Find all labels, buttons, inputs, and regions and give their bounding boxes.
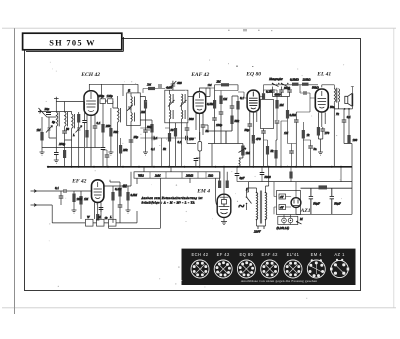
socket EL41 xyxy=(284,260,302,278)
svg-text:Anschlüsse von unten gegen die: Anschlüsse von unten gegen die Fassung g… xyxy=(241,279,318,283)
svg-text:300: 300 xyxy=(189,117,194,121)
wire: lower link xyxy=(109,178,161,228)
svg-text:1M: 1M xyxy=(123,184,128,188)
wire: T2 bottoms to bus xyxy=(170,123,182,167)
svg-text:5k: 5k xyxy=(163,147,167,151)
svg-text:1M: 1M xyxy=(223,97,228,101)
svg-text:250p: 250p xyxy=(98,94,105,98)
resistor R2 xyxy=(77,114,80,123)
resistor grid R24 xyxy=(72,194,75,203)
svg-text:1M: 1M xyxy=(208,83,213,87)
svg-text:500p: 500p xyxy=(284,86,291,90)
svg-text:110kΩ: 110kΩ xyxy=(303,78,312,82)
svg-text:8μF: 8μF xyxy=(240,176,245,180)
capacitor C8 xyxy=(143,130,148,132)
wire: chassis bus xyxy=(48,166,352,168)
wire: T1 to mid cluster xyxy=(140,97,152,121)
input jack TA arrow 2 xyxy=(31,204,37,207)
svg-text:0,1: 0,1 xyxy=(97,121,101,126)
capacitor C10 xyxy=(201,125,206,127)
svg-text:4x80: 4x80 xyxy=(166,86,172,90)
svg-text:0,5M: 0,5M xyxy=(290,113,297,118)
wire: speaker bottom row xyxy=(334,102,352,109)
wire: T2 out to EAF42 grid xyxy=(188,96,193,98)
coupling cap C28 xyxy=(124,184,126,188)
capacitor C25 xyxy=(59,196,64,198)
capacitor C19 xyxy=(287,90,292,92)
resistor R35 xyxy=(119,145,122,154)
capacitor EAF42 k xyxy=(194,159,199,161)
contact rect row 1 xyxy=(86,219,94,226)
wire: detector line xyxy=(146,129,151,131)
ground xyxy=(126,210,131,213)
wire: front-end top xyxy=(42,99,84,133)
resistor R5 xyxy=(144,100,147,109)
wire: T2 verticals xyxy=(170,90,182,123)
cathode cap C21 xyxy=(321,129,326,131)
svg-text:1M: 1M xyxy=(37,128,42,132)
trimmer C2 xyxy=(46,126,53,133)
electrolytic C29 xyxy=(309,188,313,214)
svg-text:5000: 5000 xyxy=(265,175,272,179)
svg-text:M: M xyxy=(299,217,303,221)
terminal A xyxy=(351,87,354,94)
svg-text:ECH 42: ECH 42 xyxy=(80,72,100,78)
wire: EF42 plate right xyxy=(104,186,113,192)
svg-text:0,1: 0,1 xyxy=(151,147,155,152)
input jack TA arrow 1 xyxy=(31,190,37,193)
cathode R26 xyxy=(96,214,99,221)
svg-text:2M: 2M xyxy=(147,83,152,87)
transformer primary winding xyxy=(257,193,258,220)
cathode network EQ80 xyxy=(252,135,255,144)
ground xyxy=(54,160,59,163)
transformer terminal dots xyxy=(256,192,258,194)
wire: HT rails xyxy=(249,182,352,189)
capacitor C36 xyxy=(235,174,240,176)
resistor R1 xyxy=(40,132,43,141)
resistor R33 xyxy=(286,110,289,119)
tube pins EQ80 xyxy=(250,116,257,135)
svg-text:EQ 80: EQ 80 xyxy=(245,71,261,77)
capacitor input C24 xyxy=(64,189,66,193)
switch S1b xyxy=(282,84,288,87)
cathode resistor xyxy=(85,130,88,138)
svg-text:50: 50 xyxy=(171,128,175,132)
ground xyxy=(318,152,323,155)
wire: down to pot xyxy=(208,131,240,144)
resistor R29 xyxy=(126,192,129,201)
tube pins EAF42 xyxy=(196,118,203,140)
coil L3 xyxy=(72,114,75,128)
capacitor C15 xyxy=(261,131,266,133)
wire xyxy=(38,111,72,113)
svg-text:100p: 100p xyxy=(216,123,223,127)
wire: AF line xyxy=(140,138,196,167)
svg-text:WA2: WA2 xyxy=(138,174,144,178)
IF can T2 xyxy=(165,90,188,123)
output transformer T3 xyxy=(334,89,335,103)
svg-text:10M: 10M xyxy=(77,197,83,201)
capacitor C18 xyxy=(279,90,284,92)
wire: box links xyxy=(274,182,291,215)
capacitor C38 xyxy=(105,155,110,157)
resistor R31 xyxy=(174,128,177,137)
svg-text:2M: 2M xyxy=(280,103,285,107)
wire: T1 bottom to bus xyxy=(130,126,132,167)
coil under pot xyxy=(239,158,243,166)
svg-text:4V: 4V xyxy=(280,206,285,210)
svg-text:1k: 1k xyxy=(307,133,311,137)
resistor R34 xyxy=(289,172,292,179)
socket EAF42 xyxy=(261,260,279,278)
loudspeaker LS xyxy=(345,93,353,106)
wire: transformer leads xyxy=(247,167,269,226)
svg-text:1kΩ: 1kΩ xyxy=(208,174,214,178)
wire: link row xyxy=(140,127,169,129)
node dots on bus xyxy=(47,166,342,168)
wire: plate to transformer xyxy=(333,85,335,89)
switch S1a xyxy=(273,84,279,87)
resistor R13 right of EQ80 xyxy=(262,93,265,99)
svg-text:EF 42: EF 42 xyxy=(71,178,87,184)
resistor R17 xyxy=(292,83,299,86)
capacitor C16 xyxy=(275,121,280,123)
resistor R32 xyxy=(148,87,155,90)
socket AZ1 xyxy=(330,259,349,278)
svg-text:EM 4: EM 4 xyxy=(196,188,210,194)
svg-text:5k: 5k xyxy=(271,149,275,153)
terminal top of L1 xyxy=(54,97,59,99)
svg-text:50n: 50n xyxy=(330,105,335,109)
capacitor C23 xyxy=(294,120,299,122)
capacitor C27 xyxy=(118,205,123,207)
resistor R8 on AVC xyxy=(221,83,229,86)
svg-text:50k: 50k xyxy=(114,130,119,134)
wire xyxy=(208,124,232,131)
resistor R6 xyxy=(150,124,153,133)
capacitor C13 xyxy=(230,106,235,108)
svg-text:7k: 7k xyxy=(336,112,340,116)
svg-text:8p: 8p xyxy=(52,120,56,124)
tube pins EL41 xyxy=(318,117,325,127)
svg-text:0,1: 0,1 xyxy=(55,186,59,191)
svg-text:2xM: 2xM xyxy=(155,174,161,178)
screen resistor R28 xyxy=(118,188,121,197)
resistor R18 xyxy=(302,83,309,86)
svg-text:25k: 25k xyxy=(106,124,111,128)
capacitor C22 xyxy=(342,120,347,122)
wire verticals to bus xyxy=(205,118,238,167)
svg-text:M: M xyxy=(97,215,101,219)
IF can T1 xyxy=(127,93,141,126)
heater winding a xyxy=(279,194,286,199)
wire: AVC long line xyxy=(143,88,215,96)
capacitor C12 xyxy=(219,112,224,114)
fuse Si1 xyxy=(282,218,287,223)
svg-text:f1: f1 xyxy=(128,89,131,93)
wire: AVC line top xyxy=(215,85,239,97)
mains switch xyxy=(247,197,252,204)
chassis arrow below AZ1 xyxy=(297,221,302,224)
svg-text:25k: 25k xyxy=(123,148,128,152)
resistor R16 xyxy=(274,150,277,159)
ground xyxy=(40,152,45,155)
transformer secondary winding xyxy=(266,193,267,220)
socket EM4 xyxy=(307,259,325,278)
coil L1 antenna xyxy=(56,112,59,126)
svg-text:468: 468 xyxy=(177,81,182,85)
svg-text:1M: 1M xyxy=(84,197,89,201)
smoothing choke xyxy=(319,185,328,189)
wire: feedback column xyxy=(334,109,349,167)
svg-text:125p: 125p xyxy=(107,94,114,98)
svg-text:2M: 2M xyxy=(217,80,222,84)
resistor R11 xyxy=(230,116,233,125)
capacitor antenna series xyxy=(46,113,51,115)
svg-text:50k: 50k xyxy=(235,119,240,123)
svg-text:1M: 1M xyxy=(284,131,289,135)
coil T2d xyxy=(182,110,186,119)
heater winding b xyxy=(279,205,286,210)
fuse enclosure xyxy=(278,216,298,224)
tube EF42 pins down xyxy=(94,207,101,219)
svg-text:EQ 80: EQ 80 xyxy=(239,252,253,257)
svg-text:50μF: 50μF xyxy=(334,202,341,206)
plate resistor R27 xyxy=(111,192,114,201)
contact rect row 2 xyxy=(97,219,105,226)
tube pins to bus xyxy=(87,120,95,167)
border frame of schematic xyxy=(25,39,361,291)
capacitor C14 xyxy=(248,124,253,126)
capacitor C6 xyxy=(101,148,106,150)
svg-text:1k: 1k xyxy=(105,216,109,220)
resistor R30 xyxy=(168,133,171,142)
svg-text:Klangregler: Klangregler xyxy=(268,78,283,81)
wire: bottom row xyxy=(52,222,85,224)
resistor R4 xyxy=(109,128,112,137)
wire: EL41 plate to output transformer xyxy=(322,85,335,88)
resistor R39 xyxy=(63,150,66,158)
coil T1b xyxy=(131,113,135,122)
svg-text:ECH 42: ECH 42 xyxy=(191,252,208,257)
svg-text:Ausbau zum Netzschalteränderun: Ausbau zum Netzschalteränderung ist xyxy=(141,196,203,200)
coil L2 xyxy=(65,112,68,126)
svg-text:EAF 42: EAF 42 xyxy=(262,252,279,257)
top mid faint specks xyxy=(236,66,253,67)
resistor R10 xyxy=(219,96,222,105)
svg-text:20M2: 20M2 xyxy=(186,174,194,178)
trimmer C4 xyxy=(76,126,83,133)
resistor R3 xyxy=(101,124,104,133)
svg-text:220V: 220V xyxy=(254,230,262,234)
wire xyxy=(181,145,183,167)
capacitor C3 xyxy=(62,131,67,133)
svg-text:50: 50 xyxy=(66,127,70,131)
scan noise xyxy=(42,60,344,299)
capacitor C33 xyxy=(185,128,190,130)
svg-text:2M: 2M xyxy=(141,110,146,114)
wire: B+ to EQ80 xyxy=(264,85,293,90)
resistor R12 xyxy=(236,101,239,110)
svg-text:50μF: 50μF xyxy=(313,202,320,206)
capacitor C39 inline xyxy=(152,136,154,141)
capacitor C42 xyxy=(54,153,59,155)
wire: grid feed xyxy=(83,101,86,103)
osc coil L4 xyxy=(118,108,121,122)
wire: ECH42 top to osc xyxy=(89,84,138,96)
svg-text:EAF 42: EAF 42 xyxy=(190,72,209,78)
socket EF42 xyxy=(214,260,232,278)
resistor R25 xyxy=(79,196,82,205)
wire xyxy=(281,121,288,167)
svg-text:0,5M: 0,5M xyxy=(207,102,214,107)
cathode resistor EAF42 xyxy=(198,142,202,152)
wire xyxy=(42,141,84,153)
svg-text:EL 41: EL 41 xyxy=(316,71,331,77)
wire: grid coupling xyxy=(300,85,315,98)
socket ECH42 xyxy=(191,260,209,278)
ground xyxy=(72,210,77,213)
wire xyxy=(93,211,137,223)
resistor R38 xyxy=(266,146,269,155)
svg-text:470: 470 xyxy=(256,137,261,141)
svg-text:L: L xyxy=(72,133,75,137)
electrolytic C30 xyxy=(330,188,334,214)
trimmer arrows T2 xyxy=(168,100,187,107)
resistor above EM4 xyxy=(218,181,221,189)
wire: AZ1 anode feed xyxy=(296,167,341,198)
svg-text:5n: 5n xyxy=(314,147,318,151)
svg-text:0,5M: 0,5M xyxy=(131,193,138,198)
svg-text:EL 41: EL 41 xyxy=(287,252,300,257)
antenna input A xyxy=(38,108,44,114)
svg-text:4V: 4V xyxy=(280,195,285,199)
ground xyxy=(108,152,113,155)
trimmer in T1 xyxy=(127,105,133,111)
volume pot P1 xyxy=(241,146,244,156)
svg-text:AZ1: AZ1 xyxy=(300,208,311,214)
wire: antenna to coil xyxy=(44,114,56,117)
ground at EM4 xyxy=(221,222,227,225)
svg-text:Schaltfolge : A - M - M² - L -: Schaltfolge : A - M - M² - L - TA xyxy=(142,201,195,205)
svg-text:0,1: 0,1 xyxy=(240,96,244,101)
coil T1a xyxy=(131,97,135,106)
svg-text:W: W xyxy=(87,215,90,219)
capacitor C11 xyxy=(212,118,217,120)
filter box xyxy=(261,100,274,129)
coil T2c xyxy=(182,94,186,103)
svg-text:20μ: 20μ xyxy=(45,107,50,111)
svg-text:50kΩ: 50kΩ xyxy=(312,86,319,90)
switch strip body xyxy=(134,172,220,178)
cathode resistor R20 xyxy=(317,127,320,136)
wire: EM4 connections xyxy=(216,167,225,222)
resistor R22 xyxy=(347,135,350,144)
rectifier box xyxy=(277,191,301,215)
wire xyxy=(288,97,297,144)
svg-text:(0,2/0,1A): (0,2/0,1A) xyxy=(277,226,290,231)
svg-text:1M: 1M xyxy=(246,151,251,155)
svg-text:150: 150 xyxy=(189,137,194,141)
diode load resistor R9 xyxy=(213,100,216,109)
trimmer above T2 xyxy=(170,81,177,90)
resistor R23 xyxy=(302,130,305,139)
wire: B+ row to EL41 xyxy=(292,84,318,86)
capacitor C35 xyxy=(308,146,313,148)
transformer core xyxy=(260,191,261,224)
coil T2a xyxy=(170,94,174,103)
svg-text:50k: 50k xyxy=(147,125,152,129)
wire: input wiring xyxy=(37,191,65,223)
svg-text:170: 170 xyxy=(325,131,330,135)
ground xyxy=(143,152,148,155)
wire: strip drops xyxy=(137,167,190,184)
resistor above EM4 right xyxy=(226,181,229,189)
capacitor C5 xyxy=(82,121,87,123)
svg-text:0,3MΩ: 0,3MΩ xyxy=(290,78,299,83)
svg-text:SH 705 W: SH 705 W xyxy=(49,38,96,47)
padder capacitor 2 xyxy=(108,99,113,104)
svg-text:L: L xyxy=(109,215,112,219)
capacitor C17 xyxy=(270,90,275,92)
wire: EQ80 grid xyxy=(238,92,247,98)
capacitor C26 xyxy=(99,208,104,210)
svg-text:50p: 50p xyxy=(245,128,250,132)
strip dividers xyxy=(150,172,206,178)
wire: EAF42 plate up xyxy=(200,88,211,97)
svg-text:EF 42: EF 42 xyxy=(217,252,230,257)
capacitor C37 xyxy=(260,173,265,175)
wire: T1 connections xyxy=(131,84,138,125)
svg-text:25p: 25p xyxy=(134,135,139,139)
capacitor C40 xyxy=(289,151,294,153)
black tube-socket legend bar xyxy=(182,249,356,285)
capacitor C31 xyxy=(129,140,134,142)
socket EQ80 xyxy=(237,260,255,278)
svg-text:~: ~ xyxy=(239,201,245,213)
title box SH 705 W xyxy=(23,33,124,51)
svg-text:EM 4: EM 4 xyxy=(311,252,323,257)
wire: tone caps xyxy=(273,87,290,97)
contact rect row 3 xyxy=(109,219,117,226)
resistor R15 xyxy=(275,100,278,109)
svg-text:AZ 1: AZ 1 xyxy=(334,252,345,257)
fuse Si2 xyxy=(288,218,293,223)
capacitor C7 xyxy=(93,126,98,128)
capacitor C41 xyxy=(186,136,188,141)
capacitor coupling C20 xyxy=(304,91,306,95)
padder capacitor xyxy=(100,99,105,104)
coil T2b xyxy=(170,110,174,119)
svg-text:100: 100 xyxy=(353,138,358,142)
capacitor C34 xyxy=(159,84,161,88)
wire to EF42 grid xyxy=(74,190,92,192)
mains plug xyxy=(257,226,266,229)
svg-text:6800: 6800 xyxy=(275,93,282,97)
